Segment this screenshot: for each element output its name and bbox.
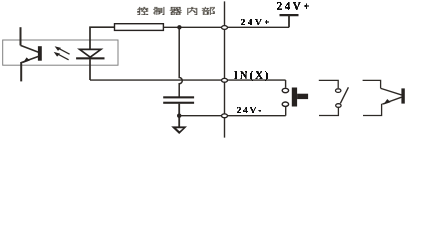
label 24V+ terminal, pixel-drawn (241, 19, 269, 25)
LED D1 cathode wire down (89, 59, 91, 80)
text label: 控制器内部 (inside controller), pixel-drawn (137, 7, 215, 15)
wire cap bottom to ground (178, 104, 180, 128)
light arrow 2 (54, 52, 69, 60)
resistor R1 (115, 24, 164, 31)
push button SW1 top lead (285, 80, 287, 88)
ground symbol (171, 126, 187, 134)
external transistor Q2 emitter lead (363, 104, 382, 116)
external 24V+ stem wire (288, 15, 290, 27)
junction dot at resistor / filter-cap node (177, 25, 181, 29)
controller boundary terminal line (224, 1, 226, 137)
phototransistor Q1 emitter stub wire (20, 62, 22, 81)
external transistor Q2 emitter diagonal (382, 97, 401, 104)
phototransistor Q1 base bar (38, 46, 42, 61)
external transistor Q2 collector diagonal (381, 88, 402, 95)
optocoupler U1 package box (3, 40, 118, 65)
push button SW1 actuator stem (297, 94, 308, 99)
wire IN(X) line from LED cathode to push button (90, 79, 286, 81)
label IN(X) terminal, pixel-drawn (234, 71, 268, 81)
LED D1 anode wire up and over to resistor (90, 27, 115, 49)
external transistor Q2 emitter arrowhead (383, 99, 390, 105)
push button SW1 bottom lead (285, 107, 287, 116)
capacitor C1 top plate (163, 96, 194, 98)
push button SW1 bottom contact circle (282, 102, 288, 106)
wire resistor to 24V+ terminal and external riser (163, 26, 289, 28)
external 24V+ supply T-bar (280, 14, 299, 16)
relay contact S1 top circle (336, 89, 341, 93)
wire cap riser with hop over IN(X) line (179, 27, 182, 96)
phototransistor Q1 collector stub wire (20, 27, 22, 45)
external transistor Q2 base bar (401, 88, 404, 103)
relay contact S1 blade (340, 87, 348, 103)
phototransistor Q1 collector diagonal (21, 45, 39, 52)
relay contact S1 bottom lead (319, 108, 338, 116)
light arrow 1 (55, 46, 70, 54)
terminal IN(X) circle (222, 78, 228, 82)
external 24V+ supply label, pixel-drawn (277, 2, 309, 10)
capacitor C1 bottom plate (163, 102, 194, 104)
terminal 24V+ circle (222, 26, 228, 30)
label 24V- terminal, pixel-drawn (237, 107, 261, 113)
LED D1 cathode bar (76, 57, 104, 59)
relay contact S1 top lead (319, 80, 338, 88)
junction dot at 24V- node (177, 114, 181, 118)
terminal 24V- circle (222, 114, 228, 118)
push button SW1 top contact circle (282, 88, 288, 92)
push button SW1 actuator bar (292, 88, 297, 107)
wire 24V- line from cap node to push button (179, 115, 286, 117)
phototransistor Q1 emitter arrowhead (23, 57, 30, 63)
LED D1 triangle (80, 49, 101, 57)
external transistor Q2 collector lead (363, 80, 381, 88)
relay contact S1 bottom circle (336, 104, 341, 108)
phototransistor Q1 emitter diagonal (21, 56, 38, 62)
